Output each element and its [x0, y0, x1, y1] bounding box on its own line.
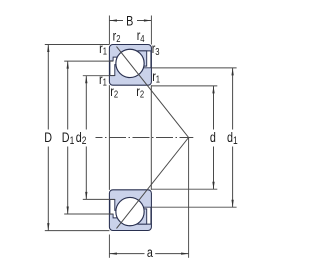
svg-text:r2: r2 — [136, 84, 144, 100]
svg-text:D: D — [44, 130, 52, 146]
svg-text:d2: d2 — [76, 130, 87, 148]
svg-text:D1: D1 — [62, 130, 74, 148]
svg-text:r2: r2 — [113, 28, 121, 44]
svg-text:B: B — [126, 13, 133, 29]
svg-text:a: a — [147, 245, 153, 261]
svg-text:d: d — [210, 130, 216, 146]
svg-text:d1: d1 — [227, 130, 238, 148]
svg-text:r1: r1 — [99, 72, 107, 88]
svg-text:r4: r4 — [137, 28, 145, 44]
svg-text:r2: r2 — [110, 84, 118, 100]
svg-text:r1: r1 — [152, 68, 160, 84]
svg-text:r1: r1 — [99, 41, 107, 57]
svg-text:r3: r3 — [152, 41, 160, 57]
